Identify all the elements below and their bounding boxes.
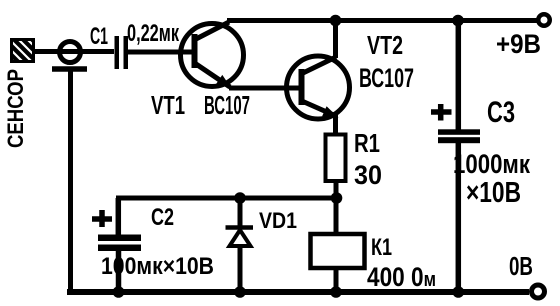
- svg-text:+9В: +9В: [496, 29, 541, 59]
- svg-text:×10В: ×10В: [466, 177, 521, 209]
- svg-text:ВС107: ВС107: [359, 63, 414, 93]
- wire VT1 emitter to VT2 base: [229, 86, 299, 91]
- svg-text:1000мк: 1000мк: [453, 149, 530, 179]
- plus mark (C2): [92, 210, 112, 227]
- svg-text:0,22мк: 0,22мк: [127, 20, 180, 47]
- relay K1: [311, 234, 365, 268]
- svg-text:С2: С2: [151, 204, 174, 231]
- capacitor C3: [438, 21, 480, 293]
- junction dot (C3 / top rail): [452, 15, 464, 27]
- label C2: [151, 204, 174, 231]
- terminal +9V: [538, 14, 550, 26]
- sensor plate (hatched square): [0, 30, 78, 90]
- value ×10В: [466, 177, 521, 209]
- svg-text:ВС107: ВС107: [204, 90, 250, 120]
- bottom rail 0V: [67, 289, 529, 295]
- transistor VT1: [181, 22, 244, 89]
- svg-text:R1: R1: [354, 128, 380, 158]
- diode VD1: [226, 198, 254, 292]
- svg-text:С3: С3: [487, 96, 515, 129]
- capacitor C2: [98, 198, 141, 292]
- svg-text:С1: С1: [90, 23, 108, 50]
- wire sensor plate to contact circle and C1: [35, 49, 114, 54]
- wire C1 to VT1 base: [128, 50, 193, 55]
- value 30: [354, 160, 382, 190]
- label C1: [90, 23, 108, 50]
- label K1: [371, 234, 392, 261]
- wire VT2 emitter down to R1: [333, 115, 338, 136]
- svg-text:СЕНСОР: СЕНСОР: [3, 69, 28, 148]
- wire R1 to node: [334, 181, 339, 198]
- terminal 0V: [532, 285, 545, 298]
- sensor contact symbol (circle with pedestal): [52, 42, 87, 70]
- label BC107 (VT1): [204, 90, 250, 120]
- label VT2: [367, 30, 403, 60]
- junction dot (C2 / bottom rail): [113, 286, 125, 298]
- label VT1: [151, 90, 185, 120]
- junction dot (R1 / mid wire): [331, 192, 343, 204]
- label R1: [354, 128, 380, 158]
- value 400 Ом: [367, 262, 436, 292]
- junction dot (VD1 / bottom rail): [234, 286, 246, 298]
- label BC107 (VT2): [359, 63, 414, 93]
- transistor VT2: [287, 56, 350, 119]
- junction dot (VD1 / mid wire): [234, 192, 246, 204]
- value 0,22мк: [127, 20, 180, 47]
- value 100мк×10В: [101, 253, 214, 280]
- label СЕНСОР (rotated): [3, 69, 28, 148]
- wire VT2 collector up to rail: [333, 21, 338, 59]
- junction dot (C3 / bottom rail): [453, 286, 465, 298]
- wire: sensor down to bottom rail: [68, 69, 73, 292]
- wire node to relay K1: [334, 198, 339, 235]
- label C3: [487, 96, 515, 129]
- capacitor C1: [115, 36, 129, 69]
- svg-text:0В: 0В: [509, 251, 533, 281]
- svg-text:VT2: VT2: [367, 30, 403, 60]
- label VD1: [259, 208, 297, 233]
- label 0В: [509, 251, 533, 281]
- svg-text:100мк×10В: 100мк×10В: [101, 253, 214, 280]
- svg-text:К1: К1: [371, 234, 392, 261]
- mid wire (node to C2): [116, 196, 336, 201]
- svg-text:VD1: VD1: [259, 208, 297, 233]
- wire K1 to bottom rail: [334, 268, 339, 292]
- svg-text:VT1: VT1: [151, 90, 185, 120]
- svg-text:30: 30: [354, 160, 382, 190]
- value 1000мк: [453, 149, 530, 179]
- label +9В: [496, 29, 541, 59]
- junction dot (K1 / bottom rail): [330, 286, 342, 298]
- plus mark (C3): [431, 104, 452, 121]
- junction dot (VT2 collector / top rail): [330, 15, 342, 27]
- top rail +9V: [227, 18, 537, 23]
- resistor R1: [326, 135, 346, 182]
